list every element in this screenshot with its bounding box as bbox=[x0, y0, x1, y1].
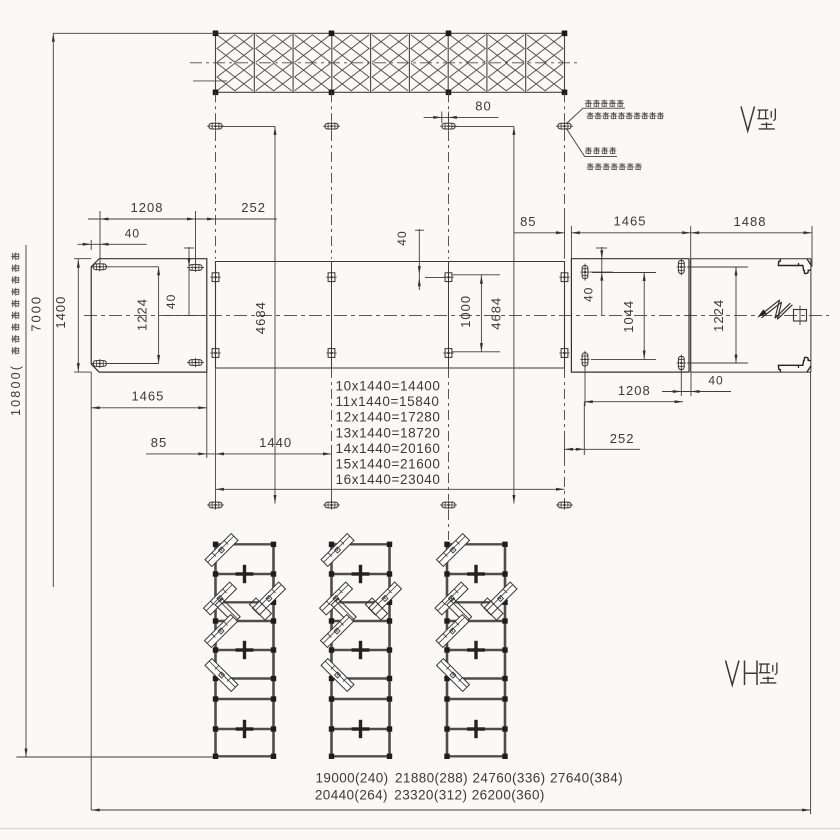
central rect inner column line 448.5 bbox=[448, 262, 450, 369]
label 40 mid-plate bbox=[581, 287, 595, 302]
ext lines right-top bbox=[571, 226, 812, 267]
svg-text:85: 85 bbox=[151, 435, 167, 450]
left plate bolt (195.5,267.5) bbox=[187, 263, 204, 272]
svg-text:1000: 1000 bbox=[458, 295, 473, 328]
ladder 2 angled brackets bbox=[320, 534, 402, 692]
rect bolt top (564.5,277) bbox=[559, 271, 569, 284]
label 1224 right bbox=[711, 299, 726, 332]
label 1465 right bbox=[614, 214, 647, 229]
band left stub line bbox=[193, 80, 227, 82]
middle plate bolt (585,272.1) bbox=[580, 264, 589, 281]
title VH-type bbox=[726, 661, 777, 686]
label 40 top-left bbox=[125, 227, 140, 241]
svg-text:23320(312): 23320(312) bbox=[394, 788, 467, 803]
svg-text:7000: 7000 bbox=[29, 295, 44, 332]
dim 1208 right bbox=[584, 400, 683, 403]
svg-text:20440(264): 20440(264) bbox=[315, 788, 388, 803]
svg-text:80: 80 bbox=[475, 99, 491, 114]
svg-text:40: 40 bbox=[581, 287, 595, 302]
4684 top connector left bbox=[218, 125, 276, 127]
middle plate bolt (681.3,363) bbox=[677, 355, 686, 372]
svg-text:1488: 1488 bbox=[734, 214, 767, 229]
band top connector bbox=[53, 32, 215, 34]
label 85 left bbox=[151, 435, 167, 450]
label 1224 left bbox=[135, 298, 150, 331]
formula table bbox=[336, 379, 441, 488]
label 1044 bbox=[621, 300, 636, 333]
left plate bolt (195.5,362.5) bbox=[187, 358, 204, 367]
dim 1224 right bbox=[687, 267, 748, 363]
left plate outline bbox=[91, 259, 207, 372]
ladder 1 cross fittings bbox=[236, 565, 254, 738]
label 252 left bbox=[241, 200, 266, 215]
svg-text:10800(: 10800( bbox=[9, 364, 23, 416]
svg-text:252: 252 bbox=[610, 431, 635, 446]
dim 1400 bbox=[74, 259, 91, 372]
dim 252 right bbox=[565, 448, 641, 451]
ladder frame 1 bbox=[213, 542, 276, 759]
svg-text:14x1440=20160: 14x1440=20160 bbox=[336, 441, 441, 456]
dim 1224 left bbox=[108, 267, 160, 364]
label 1465 left bbox=[131, 389, 164, 404]
svg-text:11x1440=15840: 11x1440=15840 bbox=[336, 394, 440, 409]
note line1 changcaokong bbox=[585, 100, 624, 107]
baseline at y=757 bbox=[16, 756, 215, 758]
V plate outline with notches bbox=[691, 259, 811, 372]
bottom label row2 bbox=[315, 788, 545, 803]
label 10800 (rotated) bbox=[9, 252, 23, 416]
svg-text:1465: 1465 bbox=[131, 389, 164, 404]
label 40 left inner bbox=[164, 294, 178, 309]
dim 85 right bbox=[514, 231, 565, 234]
column centerline x=564.5 bbox=[564, 92, 566, 509]
truss band (top strip of lattice panels) bbox=[216, 33, 565, 92]
label 1208 right bbox=[618, 383, 651, 398]
anchor slot bolt bottom (215.5,505) bbox=[207, 500, 224, 509]
svg-text:26200(360): 26200(360) bbox=[472, 788, 545, 803]
svg-text:40: 40 bbox=[164, 294, 178, 309]
svg-text:1208: 1208 bbox=[131, 200, 164, 215]
central rect outline bbox=[216, 262, 565, 369]
dim 23040 line bbox=[216, 488, 565, 491]
band node dots bbox=[213, 31, 568, 96]
ladder frame 3 bbox=[444, 542, 507, 759]
svg-text:24760(336): 24760(336) bbox=[473, 771, 546, 786]
ladder 3 angled brackets bbox=[435, 534, 517, 692]
middle plate bolt (585,359.4) bbox=[580, 351, 589, 368]
label 85 right bbox=[520, 214, 536, 229]
svg-text:13x1440=18720: 13x1440=18720 bbox=[336, 425, 441, 440]
4684 top connector right bbox=[451, 125, 514, 127]
label 40 bottom-right bbox=[708, 374, 723, 388]
anchor slot bolt top (331.5,126) bbox=[323, 122, 340, 131]
dim 1000 line bbox=[453, 275, 501, 352]
dim 85-1440 line bbox=[146, 452, 332, 455]
dim 40 top-left bbox=[78, 240, 147, 250]
label 1400 bbox=[53, 296, 68, 329]
dim 1208-252 line bbox=[88, 218, 277, 221]
dim 4684 line x=513.9 bbox=[512, 126, 515, 503]
svg-text:10x1440=14400: 10x1440=14400 bbox=[336, 379, 441, 394]
svg-text:1440: 1440 bbox=[259, 435, 292, 450]
column centerline x=448.5 bbox=[448, 92, 450, 540]
label 1208 left bbox=[131, 200, 164, 215]
note line2 weidijiao bbox=[587, 112, 664, 119]
svg-text:252: 252 bbox=[241, 200, 266, 215]
svg-text:1224: 1224 bbox=[711, 299, 726, 332]
svg-text:40: 40 bbox=[708, 374, 723, 388]
anchor slot bolt bottom (448.5,505) bbox=[440, 500, 457, 509]
dim 7000 top arrow bbox=[52, 33, 55, 42]
title V-type bbox=[741, 107, 775, 132]
anchor slot bolt top (215.5,126) bbox=[207, 122, 224, 131]
horizontal centerline bbox=[84, 314, 829, 316]
svg-text:19000(240): 19000(240) bbox=[316, 771, 389, 786]
band centerline bbox=[190, 62, 578, 64]
rect bolt top (331.5,277) bbox=[326, 271, 336, 284]
note line4 weidijiao2 bbox=[587, 163, 642, 170]
dim 10800 arrow bbox=[25, 749, 28, 758]
dim 1465 left bbox=[91, 406, 207, 409]
dim 80 line bbox=[424, 112, 499, 124]
label 1488 bbox=[734, 214, 767, 229]
dim 40 mid lines bbox=[415, 229, 445, 290]
ladder 2 cross fittings bbox=[352, 565, 370, 738]
dim 40 mid-plate bbox=[590, 247, 613, 316]
middle plate bolt (681.3,267) bbox=[677, 259, 686, 276]
svg-text:40: 40 bbox=[395, 230, 409, 245]
overall bottom dim bbox=[91, 372, 810, 814]
anchor slot bolt top (448.5,126) bbox=[440, 122, 457, 131]
column centerline x=331.5 bbox=[331, 92, 333, 509]
middle plate outline bbox=[571, 259, 689, 372]
rect bolt bottom (564.5,353) bbox=[559, 347, 569, 360]
svg-text:4684: 4684 bbox=[489, 297, 504, 330]
dim extension lines top-left bbox=[100, 211, 196, 264]
rect bolt top (448.5,277) bbox=[443, 271, 453, 284]
rect bolt top (215.5,277) bbox=[210, 271, 220, 284]
dim 4684 line x=275.0 bbox=[274, 126, 277, 503]
svg-text:15x1440=21600: 15x1440=21600 bbox=[336, 457, 441, 472]
label 252 right bbox=[610, 431, 635, 446]
photo edge line (bottom) bbox=[0, 828, 840, 830]
svg-text:1465: 1465 bbox=[614, 214, 647, 229]
break symbol (lightning) bbox=[757, 300, 792, 319]
svg-text:1224: 1224 bbox=[135, 298, 150, 331]
svg-text:1400: 1400 bbox=[53, 296, 68, 329]
ladder 3 cross fittings bbox=[467, 565, 485, 738]
dim 40 left inner bbox=[165, 247, 206, 316]
svg-text:27640(384): 27640(384) bbox=[550, 771, 623, 786]
svg-text:16x1440=23040: 16x1440=23040 bbox=[336, 472, 441, 487]
label 4684 x=500.5 bbox=[489, 297, 504, 330]
ladder frame 2 bbox=[329, 542, 392, 759]
ext line x=206.8 bbox=[206, 372, 208, 458]
left plate bolt (99.8,266.8) bbox=[91, 262, 108, 271]
label 4684 x=265.0 bbox=[253, 301, 268, 334]
svg-text:12x1440=17280: 12x1440=17280 bbox=[336, 410, 441, 425]
svg-text:4684: 4684 bbox=[253, 301, 268, 334]
label 40 mid bbox=[395, 230, 409, 245]
ext line x=91.2 (long) bbox=[90, 372, 92, 810]
anchor slot bolt top (564.5,126) bbox=[556, 122, 573, 131]
svg-text:1208: 1208 bbox=[618, 383, 651, 398]
rect bolt bottom (448.5,353) bbox=[443, 347, 453, 360]
central rect inner column line 331.5 bbox=[331, 262, 333, 369]
dim 1044 bbox=[591, 273, 656, 360]
ext lines bottom-right bbox=[584, 366, 691, 455]
svg-text:1044: 1044 bbox=[621, 300, 636, 333]
dim 40 bottom-right bbox=[662, 390, 731, 393]
svg-text:40: 40 bbox=[125, 227, 140, 241]
svg-text:85: 85 bbox=[520, 214, 536, 229]
dim 1488 bbox=[691, 231, 812, 234]
note line3 yuankong bbox=[585, 147, 616, 154]
rect bolt bottom (215.5,353) bbox=[210, 347, 220, 360]
dim 10800 leader line bbox=[25, 245, 27, 757]
dim 1465 right bbox=[571, 231, 690, 234]
label 1440 bbox=[259, 435, 292, 450]
left plate bolt (99.8,363.5) bbox=[91, 359, 108, 368]
ladder 1 angled brackets bbox=[204, 534, 286, 692]
leader to slot-hole note bbox=[566, 108, 625, 156]
anchor slot bolt bottom (564.5,505) bbox=[556, 500, 573, 509]
label 80 bbox=[475, 99, 491, 114]
dim 7000 line bbox=[52, 33, 54, 587]
column centerline x=215.5 bbox=[215, 92, 217, 509]
rect bolt bottom (331.5,353) bbox=[326, 347, 336, 360]
svg-text:21880(288): 21880(288) bbox=[395, 771, 468, 786]
bottom label row1 bbox=[316, 771, 624, 786]
label 7000 bbox=[29, 295, 44, 332]
anchor slot bolt bottom (331.5,505) bbox=[323, 500, 340, 509]
clamp square symbol bbox=[794, 306, 807, 326]
label 1000 bbox=[458, 295, 473, 328]
